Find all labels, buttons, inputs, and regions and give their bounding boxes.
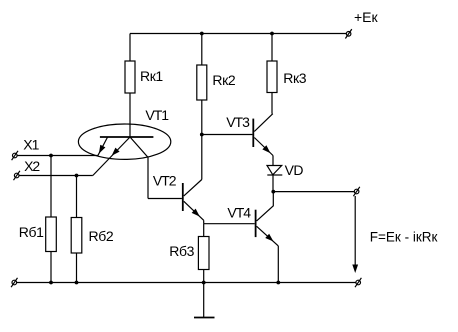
node junction dot Rb2 / ground rail bbox=[75, 281, 79, 285]
wire +Ek power rail bbox=[130, 33, 346, 35]
svg-text:X2: X2 bbox=[24, 158, 40, 174]
svg-text:VD: VD bbox=[285, 162, 304, 178]
wire X1 input bbox=[17, 155, 98, 157]
wire Rb1 to ground rail bbox=[50, 252, 52, 283]
wire X2 node to Rb2 bbox=[76, 176, 78, 218]
wire output node to output terminal bbox=[273, 191, 354, 193]
node junction dot VT4 emitter / ground rail bbox=[276, 281, 280, 285]
svg-text:Rб1: Rб1 bbox=[19, 224, 44, 240]
resistor Rb2 bbox=[71, 218, 82, 254]
transistor VT4 bbox=[256, 210, 279, 283]
wire rail to Rk3 bbox=[271, 34, 273, 62]
terminal X2 bbox=[14, 171, 20, 180]
svg-text:VT3: VT3 bbox=[226, 114, 250, 130]
svg-text:Rб2: Rб2 bbox=[89, 228, 114, 244]
svg-text:Rк1: Rк1 bbox=[140, 68, 163, 84]
node junction dot Rk2 / VT3 base bbox=[200, 133, 204, 137]
terminal ground right bbox=[355, 278, 361, 287]
resistor Rb3 bbox=[198, 237, 209, 270]
node junction dot X2 / Rb2 bbox=[75, 174, 79, 178]
node junction dot on rail above Rk3 bbox=[270, 32, 274, 36]
resistor Rk3 bbox=[267, 61, 277, 93]
wire ground rail bbox=[17, 282, 356, 284]
wire Rk1 to VT1 base bbox=[129, 93, 131, 137]
wire rail to Rk1 bbox=[129, 34, 131, 62]
wire VT2 emitter to VT4 base bbox=[204, 223, 255, 225]
wire Rb2 to ground rail bbox=[76, 253, 78, 283]
node junction dot on rail above Rk2 bbox=[200, 32, 204, 36]
svg-text:Rк3: Rк3 bbox=[283, 70, 306, 86]
node junction dot output (VD cathode / VT4 collector) bbox=[271, 190, 275, 194]
terminal X1 bbox=[12, 151, 18, 160]
node junction dot Rb1 / ground rail bbox=[49, 281, 53, 285]
transistor VT3 bbox=[253, 114, 273, 156]
wire Rb3 to ground rail bbox=[203, 270, 205, 283]
transistor VT1 multi-emitter bbox=[78, 124, 170, 199]
node junction dot Rb3 / ground rail bbox=[202, 281, 206, 285]
terminal ground left bbox=[11, 278, 17, 287]
svg-text:Rб3: Rб3 bbox=[169, 243, 194, 259]
svg-text:VT1: VT1 bbox=[145, 107, 169, 123]
svg-text:VT4: VT4 bbox=[227, 205, 251, 221]
svg-text:X1: X1 bbox=[23, 137, 39, 153]
ground symbol bbox=[194, 283, 215, 318]
resistor Rk2 bbox=[197, 65, 207, 100]
resistor Rb1 bbox=[46, 217, 57, 252]
transistor VT2 bbox=[183, 180, 204, 224]
wire Rk2 down to VT2 collector elbow bbox=[201, 100, 203, 180]
wire Rk3 to VT3 collector bbox=[271, 93, 273, 114]
svg-text:F=Eк - iкRк: F=Eк - iкRк bbox=[370, 230, 438, 245]
output voltage arrow F bbox=[352, 196, 358, 273]
wire rail to Rk2 bbox=[201, 34, 203, 66]
terminal +Ek bbox=[345, 29, 351, 38]
wire VT2 emitter node to Rb3 bbox=[203, 224, 205, 237]
terminal output top bbox=[353, 187, 359, 196]
wire X2 input bbox=[19, 175, 93, 177]
wire X1 node to Rb1 bbox=[50, 156, 52, 218]
svg-text:+Eк: +Eк bbox=[354, 9, 379, 25]
svg-text:Rк2: Rк2 bbox=[212, 72, 235, 88]
resistor Rk1 bbox=[125, 61, 135, 93]
wire Rk2 node to VT3 base bbox=[202, 134, 253, 136]
diode VD bbox=[267, 166, 282, 176]
wire VT3 emitter to diode VD bbox=[272, 156, 274, 192]
node junction dot X1 / Rb1 bbox=[49, 154, 53, 158]
wire VT1 collector to VT2 base bbox=[148, 198, 182, 200]
wire VT4 collector bbox=[257, 192, 274, 221]
svg-text:VT2: VT2 bbox=[153, 173, 177, 189]
